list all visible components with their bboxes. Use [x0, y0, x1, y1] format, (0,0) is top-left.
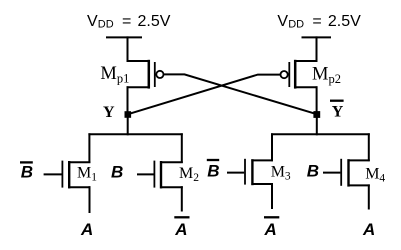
svg-text:VDD=2.5V: VDD=2.5V [277, 13, 361, 31]
svg-text:Y: Y [332, 104, 344, 121]
svg-text:B: B [307, 162, 319, 181]
svg-text:M1: M1 [77, 165, 97, 184]
svg-text:Mp2: Mp2 [312, 64, 341, 86]
svg-text:M2: M2 [179, 165, 199, 184]
svg-text:A: A [264, 220, 277, 239]
svg-text:A: A [174, 220, 187, 239]
svg-text:Y: Y [103, 104, 115, 121]
svg-text:B: B [111, 163, 123, 182]
svg-text:B: B [207, 162, 219, 181]
svg-text:M3: M3 [271, 164, 291, 183]
svg-text:VDD=2.5V: VDD=2.5V [87, 13, 171, 31]
svg-text:Mp1: Mp1 [100, 64, 129, 86]
svg-text:B: B [21, 163, 33, 182]
svg-text:A: A [362, 220, 375, 239]
svg-text:M4: M4 [365, 166, 385, 185]
svg-text:A: A [80, 220, 93, 239]
